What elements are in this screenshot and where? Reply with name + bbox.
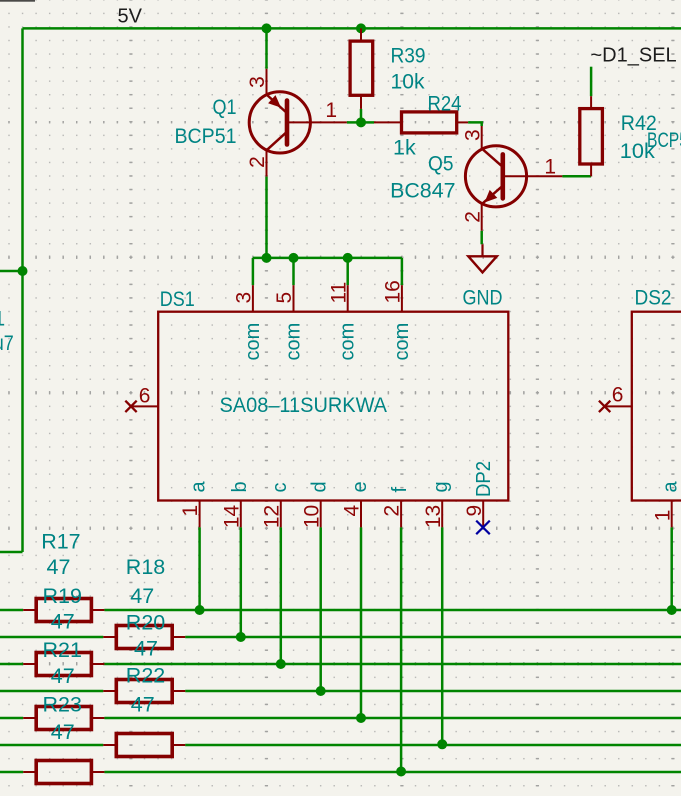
junction left rail xyxy=(18,266,28,276)
svg-text:10k: 10k xyxy=(391,70,425,94)
svg-text:DP2: DP2 xyxy=(473,461,495,497)
svg-text:R20: R20 xyxy=(126,611,165,635)
svg-text:R39: R39 xyxy=(391,44,426,68)
wire bus row y=637 xyxy=(0,636,103,639)
transistor Q5 xyxy=(465,126,562,231)
svg-text:47: 47 xyxy=(51,610,75,634)
svg-text:f: f xyxy=(389,487,411,493)
svg-text:R21: R21 xyxy=(43,638,82,662)
svg-text:6: 6 xyxy=(612,384,624,407)
svg-text:u7: u7 xyxy=(0,331,14,355)
svg-text:4: 4 xyxy=(341,504,364,516)
wire DS1 pin at x=440.5 down to bus row y=745 xyxy=(441,527,444,744)
svg-text:R19: R19 xyxy=(43,584,82,608)
transistor Q1 xyxy=(249,69,347,177)
svg-text:b: b xyxy=(229,481,251,492)
DS1 top pin 5 xyxy=(293,285,295,312)
DS2 bottom pin 1 (a) xyxy=(671,501,673,528)
svg-text:5V: 5V xyxy=(118,5,143,27)
wire bus row y=745 xyxy=(0,744,103,747)
svg-text:com: com xyxy=(337,323,359,361)
resistor body on row y=745 xyxy=(103,734,185,757)
junction DS2 pin a row 1 xyxy=(667,605,677,615)
wire bus row y=772 xyxy=(0,771,23,774)
svg-text:a: a xyxy=(660,481,681,493)
svg-text:R23: R23 xyxy=(43,693,82,717)
DS1 top pin 11 xyxy=(347,285,349,312)
DS2 pin 6 xyxy=(605,405,632,407)
svg-text:R24: R24 xyxy=(428,91,462,115)
resistor body on row y=772 xyxy=(23,761,104,784)
wire DS1 pin at x=361.0 down to bus row y=718 xyxy=(360,527,363,718)
svg-text:com: com xyxy=(391,323,413,361)
svg-text:Q5: Q5 xyxy=(428,152,454,176)
svg-text:BC847: BC847 xyxy=(390,178,455,202)
svg-text:47: 47 xyxy=(130,584,154,608)
svg-text:47: 47 xyxy=(51,720,75,744)
svg-text:R18: R18 xyxy=(126,555,165,579)
wire 5V to Q1 xyxy=(265,28,268,68)
svg-text:3: 3 xyxy=(246,76,269,88)
resistor R39 xyxy=(350,28,373,109)
junction 5V Q1 xyxy=(262,23,272,33)
wire bus row y=691 xyxy=(0,690,103,693)
svg-text:SA08–11SURKWA: SA08–11SURKWA xyxy=(220,393,388,417)
major grid columns xyxy=(129,0,133,796)
wire DS1 pin at x=240.8 down to bus row y=637 xyxy=(240,527,243,637)
svg-text:16: 16 xyxy=(382,280,405,303)
wire left stub to capacitor xyxy=(0,270,23,273)
svg-text:com: com xyxy=(283,323,305,361)
wire DS1 pin at x=400.5 down to bus row y=772 xyxy=(400,527,403,771)
svg-text:d: d xyxy=(309,481,331,492)
svg-text:BCP51: BCP51 xyxy=(175,124,237,148)
wire D1_SEL to R42 xyxy=(590,67,593,97)
wire comb tooth 3 xyxy=(346,258,349,285)
svg-text:47: 47 xyxy=(51,664,75,688)
resistor body on row y=718 xyxy=(23,707,104,730)
svg-text:Q1: Q1 xyxy=(213,95,237,119)
svg-text:11: 11 xyxy=(327,282,350,304)
svg-text:2: 2 xyxy=(461,211,484,223)
svg-text:1k: 1k xyxy=(393,136,416,160)
svg-text:BCP5: BCP5 xyxy=(647,128,681,152)
DS1 top pin 3 xyxy=(252,285,254,312)
svg-text:1: 1 xyxy=(651,510,674,522)
svg-text:9: 9 xyxy=(463,505,486,517)
svg-text:c: c xyxy=(269,483,291,493)
junction 5V R39 xyxy=(356,23,366,33)
svg-text:47: 47 xyxy=(47,555,71,579)
resistor body on row y=664 xyxy=(23,653,104,676)
text fragment top edge xyxy=(0,0,35,2)
DS1 bottom pin 13 (g) xyxy=(441,501,443,528)
svg-text:1: 1 xyxy=(325,99,337,122)
svg-text:5: 5 xyxy=(273,292,296,304)
wire R39 to junction xyxy=(360,109,363,123)
svg-text:14: 14 xyxy=(220,504,243,528)
junction comb Q1 xyxy=(262,253,272,263)
wire comb tooth 1 xyxy=(252,258,255,285)
svg-text:a: a xyxy=(188,481,210,493)
wire comb tooth 2 xyxy=(292,258,295,285)
wire Q1 emitter down to comb xyxy=(265,177,268,258)
resistor body on row y=610 xyxy=(23,599,104,622)
wire bus row y=718 xyxy=(0,717,23,720)
DS1 bottom pin 2 (f) xyxy=(400,501,402,528)
svg-text:DS1: DS1 xyxy=(160,287,195,311)
major grid rows xyxy=(0,121,681,125)
wire bus row y=610 xyxy=(0,609,23,612)
wire comb horizontal xyxy=(253,257,402,260)
DS1 bottom pin 14 (b) xyxy=(240,501,242,528)
svg-text:R22: R22 xyxy=(126,664,165,688)
svg-text:2: 2 xyxy=(381,505,404,517)
svg-text:13: 13 xyxy=(422,505,445,528)
svg-text:1: 1 xyxy=(544,155,556,178)
no-connect X on pin 9 xyxy=(476,521,490,535)
svg-text:12: 12 xyxy=(260,505,283,528)
DS1 bottom pin 4 (e) xyxy=(360,501,362,528)
wire left rail vertical xyxy=(21,28,24,552)
DS1 bottom pin 12 (c) xyxy=(280,501,282,528)
resistor body on row y=691 xyxy=(103,680,185,703)
svg-text:6: 6 xyxy=(139,385,151,408)
svg-text:47: 47 xyxy=(131,693,155,717)
svg-text:DS2: DS2 xyxy=(635,285,672,309)
wire Q5 emitter to GND xyxy=(480,231,483,245)
wire comb tooth 4 xyxy=(401,258,404,285)
svg-text:47: 47 xyxy=(134,637,158,661)
wire left rail bottom stub xyxy=(0,551,23,554)
resistor R24 xyxy=(374,112,468,133)
wire Q1 base to junction xyxy=(347,121,361,124)
svg-text:e: e xyxy=(349,481,371,492)
ground symbol xyxy=(468,244,497,272)
junction R39/R24/Q1 xyxy=(356,117,366,127)
wire DS1 pin at x=199.6 down to bus row y=610 xyxy=(198,527,201,610)
wire DS2 pin a down to bus row 1 xyxy=(670,527,673,610)
wire DS1 pin at x=280.8 down to bus row y=664 xyxy=(280,527,283,664)
svg-text:com: com xyxy=(242,323,264,361)
DS1 bottom pin 10 (d) xyxy=(320,501,322,528)
svg-text:3: 3 xyxy=(461,129,484,141)
DS1 pin 6 xyxy=(131,405,158,407)
resistor R42 xyxy=(580,96,603,176)
resistor body on row y=637 xyxy=(103,626,185,649)
LED display DS1 body xyxy=(158,312,508,501)
DS1 bottom pin 9 (DP2) xyxy=(482,501,484,528)
svg-text:2: 2 xyxy=(246,156,269,168)
svg-text:10: 10 xyxy=(300,505,323,528)
svg-text:GND: GND xyxy=(463,286,503,310)
svg-text:1: 1 xyxy=(179,505,202,517)
svg-text:R17: R17 xyxy=(41,530,80,554)
wire DS1 pin at x=320.7 down to bus row y=691 xyxy=(319,527,322,691)
wire Q5 base to R42 xyxy=(562,175,591,178)
wire junction to R24 xyxy=(361,121,374,124)
svg-text:g: g xyxy=(430,481,452,492)
svg-text:3: 3 xyxy=(233,292,256,304)
wire R24 to Q5 base-top xyxy=(468,122,482,126)
DS2 pin 6 unconnected X xyxy=(599,401,610,412)
svg-text:~D1_SEL: ~D1_SEL xyxy=(591,45,677,67)
junction comb pin5 xyxy=(289,253,299,263)
DS1 bottom pin 1 (a) xyxy=(199,501,201,528)
junction comb pin11 xyxy=(343,253,353,263)
wire 5V rail xyxy=(23,27,681,30)
DS1 top pin 16 xyxy=(401,285,403,312)
svg-text:1: 1 xyxy=(0,307,5,331)
wire bus row y=664 xyxy=(0,663,23,666)
DS1 pin 6 unconnected X xyxy=(125,401,136,412)
LED display DS2 body xyxy=(632,312,681,501)
